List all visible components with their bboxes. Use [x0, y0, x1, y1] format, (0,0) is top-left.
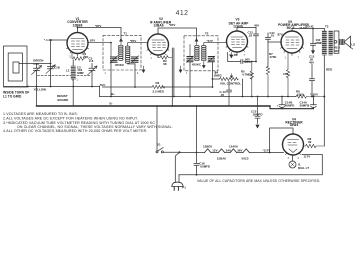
svg-text:+: +	[277, 103, 279, 107]
svg-text:2: 2	[137, 73, 139, 75]
loop antenna L1 outer turn	[4, 46, 28, 87]
svg-text:VALUE OF ALL CAPACITORS ARE MA: VALUE OF ALL CAPACITORS ARE MAX UNLESS O…	[197, 179, 320, 183]
grid wire to V1	[50, 40, 52, 87]
svg-text:+: +	[308, 103, 310, 107]
svg-text:455KC: 455KC	[192, 63, 202, 67]
svg-text:36V: 36V	[237, 148, 242, 152]
tube V3 12AV6 det af amp	[226, 18, 249, 55]
svg-text:.05: .05	[220, 93, 224, 97]
resistor R5 4.7MEG	[241, 61, 254, 98]
svg-text:R3: R3	[156, 81, 160, 85]
svg-text:2-8: 2-8	[89, 59, 94, 63]
T2 secondary coil	[202, 45, 207, 47]
V3 cathode ground	[230, 53, 233, 58]
B- bus	[37, 105, 271, 107]
heater return	[179, 155, 322, 175]
svg-text:BOARD: BOARD	[58, 98, 69, 102]
coupling capacitor C12 .02	[248, 28, 259, 62]
svg-text:68: 68	[163, 62, 167, 66]
T2 slug arrow bottom	[202, 62, 205, 69]
svg-text:B+: B+	[111, 92, 115, 96]
svg-text:2: 2	[72, 80, 74, 82]
svg-text:2.2 MEG: 2.2 MEG	[153, 89, 165, 93]
wire inner turn to tuning cap	[19, 63, 51, 65]
tube V5 50C5 power amplifier	[278, 20, 309, 56]
svg-text:YELLOW: YELLOW	[34, 88, 47, 92]
svg-text:P1: P1	[182, 185, 186, 189]
svg-text:7: 7	[298, 58, 300, 60]
svg-text:DIAL LT: DIAL LT	[298, 166, 309, 170]
B- extension under caps	[270, 106, 314, 109]
svg-text:VOL CONTROL: VOL CONTROL	[220, 82, 242, 86]
B+ line	[100, 96, 296, 98]
svg-text:45V: 45V	[254, 24, 259, 28]
tube V4 35W4 rectifier	[269, 118, 304, 156]
svg-text:*117V: *117V	[263, 149, 271, 153]
svg-text:B-: B-	[110, 101, 113, 105]
volume control R4	[212, 62, 244, 97]
V2 plate wire to T2	[158, 28, 197, 39]
svg-text:40MFD: 40MFD	[285, 104, 295, 108]
svg-text:12BA6: 12BA6	[153, 24, 163, 28]
svg-text:.02: .02	[248, 33, 252, 37]
tuning capacitor C1B	[46, 65, 60, 74]
notes caption	[3, 112, 173, 133]
capacitor 100MMF	[311, 28, 323, 54]
svg-text:87V: 87V	[90, 39, 95, 43]
svg-text:5: 5	[70, 57, 72, 59]
cathode resistor R2	[158, 55, 172, 66]
svg-text:12V: 12V	[212, 148, 217, 152]
svg-text:RED: RED	[326, 68, 332, 72]
svg-text:12BE6: 12BE6	[203, 145, 212, 149]
loop antenna L1 middle turn	[8, 53, 22, 81]
power plug P1	[172, 152, 186, 190]
IF transformer T1 box	[88, 31, 147, 70]
svg-text:R6: R6	[234, 53, 238, 57]
switch S1	[156, 105, 181, 153]
V5 plate wire to T3	[292, 29, 324, 32]
svg-text:39: 39	[308, 140, 312, 144]
T2 trimmer right	[208, 57, 214, 62]
svg-text:35W4: 35W4	[290, 123, 299, 127]
pin number specks	[70, 55, 300, 160]
svg-text:S1: S1	[157, 142, 161, 146]
svg-text:150: 150	[283, 72, 288, 76]
svg-text:L2: L2	[66, 69, 70, 73]
svg-text:T1: T1	[124, 31, 128, 35]
svg-text:LS: LS	[351, 43, 355, 47]
V3 plate wire	[237, 28, 256, 32]
T1 trimmer left	[111, 57, 118, 62]
svg-text:1: 1	[151, 58, 153, 60]
AVC line	[103, 86, 213, 88]
T2 primary coil	[195, 45, 200, 47]
filament 12BA6	[218, 149, 224, 153]
svg-text:.05MFD: .05MFD	[200, 165, 210, 169]
svg-text:MFD: MFD	[244, 60, 250, 64]
speaker LS	[334, 31, 355, 53]
svg-text:*87V: *87V	[95, 24, 101, 28]
T2 exits	[189, 62, 191, 97]
dial lamp I1	[289, 155, 309, 170]
resistor R7 470K with C11	[266, 31, 282, 98]
svg-text:4: 4	[298, 158, 300, 160]
svg-text:AVC: AVC	[100, 83, 107, 87]
svg-text:455KC: 455KC	[115, 63, 125, 67]
V5 cathode resistor 150	[283, 53, 290, 97]
slug arrow top	[195, 39, 198, 45]
V1 plate wire to T1	[78, 28, 122, 39]
svg-text:50C5: 50C5	[242, 157, 249, 161]
svg-text:L1 TO GRID: L1 TO GRID	[3, 95, 22, 99]
svg-text:1000: 1000	[297, 92, 304, 96]
T1 secondary coil	[125, 46, 130, 48]
T1 primary coil	[119, 45, 124, 47]
svg-text:412: 412	[176, 10, 189, 17]
svg-text:87V: 87V	[278, 32, 283, 36]
resistor R8	[304, 97, 325, 148]
svg-text:400: 400	[309, 61, 314, 65]
svg-text:T2: T2	[205, 31, 209, 35]
ground arrow right of T1	[142, 66, 145, 73]
resistor R9 1000 in B+ line	[296, 90, 325, 99]
svg-text:MMF: MMF	[77, 71, 84, 75]
svg-text:1.VOLTAGES ARE MEASURED TO B-: 1.VOLTAGES ARE MEASURED TO B- BUS.	[3, 112, 78, 116]
detector capacitor C9	[228, 53, 257, 65]
svg-text:1: 1	[77, 80, 79, 82]
ground arrow left of T2	[179, 66, 182, 73]
capacitor C10 at vol control	[220, 82, 232, 107]
svg-text:*87V: *87V	[130, 39, 136, 43]
svg-text:24V: 24V	[226, 148, 231, 152]
filament 50C5	[243, 149, 249, 153]
output transformer T3	[322, 24, 333, 96]
svg-text:4.ALL OTHER DC VOLTAGES MEASUR: 4.ALL OTHER DC VOLTAGES MEASURED WITH 20…	[3, 129, 148, 133]
IF transformer T2 box	[184, 31, 227, 71]
left ground/return line	[51, 86, 100, 88]
line bypass capacitor C16 / B- tie	[194, 105, 210, 176]
svg-text:4.7MEG: 4.7MEG	[242, 73, 254, 77]
svg-text:3: 3	[288, 158, 290, 160]
svg-text:470K: 470K	[270, 55, 278, 59]
svg-text:MMF: MMF	[316, 41, 323, 45]
T1 exits	[110, 63, 112, 97]
resistor R1 22K	[72, 52, 89, 60]
electrolytic C14A 30MFD	[300, 96, 317, 109]
svg-text:2.ALL VOLTAGES ARE DC EXCEPT F: 2.ALL VOLTAGES ARE DC EXCEPT FOR HEATERS…	[3, 117, 138, 121]
svg-text:12BA6: 12BA6	[217, 157, 227, 161]
svg-text:.05MFD: .05MFD	[252, 113, 262, 117]
slug arrow top	[120, 39, 123, 45]
svg-text:117V: 117V	[304, 155, 311, 159]
loop antenna L1 inner turn	[13, 62, 19, 73]
yellow ground wire	[4, 86, 51, 88]
tube V1 12BE6 converter	[67, 17, 89, 56]
vertical to B+ corner	[99, 87, 101, 97]
svg-text:C1B: C1B	[54, 66, 60, 70]
T1 trimmer right	[132, 57, 139, 62]
filament 12BE6	[205, 149, 211, 153]
svg-text:1: 1	[285, 58, 287, 60]
svg-text:*-1.2V: *-1.2V	[44, 38, 52, 42]
svg-text:1: 1	[186, 73, 188, 75]
oscillator coil L2	[66, 60, 84, 106]
svg-text:T3: T3	[325, 24, 329, 28]
osc trimmer C3	[88, 64, 98, 87]
resistor R3 2.2 MEG on AVC line	[152, 81, 165, 93]
tube V2 12BA6 IF amplifier	[147, 17, 172, 57]
svg-text:.01: .01	[270, 34, 274, 38]
electrolytic C14B 40MFD	[277, 96, 295, 109]
double vertical screen wires	[172, 48, 174, 106]
T2 trimmer left	[187, 57, 193, 62]
svg-text:1: 1	[105, 73, 107, 75]
svg-text:50C5: 50C5	[287, 26, 295, 30]
heater string	[180, 145, 284, 161]
gang dashed line	[38, 74, 92, 76]
filament 12AV6	[230, 149, 236, 153]
svg-text:*87V: *87V	[169, 23, 175, 27]
capacitor C15	[251, 96, 262, 128]
tuning capacitor C1A	[32, 64, 42, 87]
